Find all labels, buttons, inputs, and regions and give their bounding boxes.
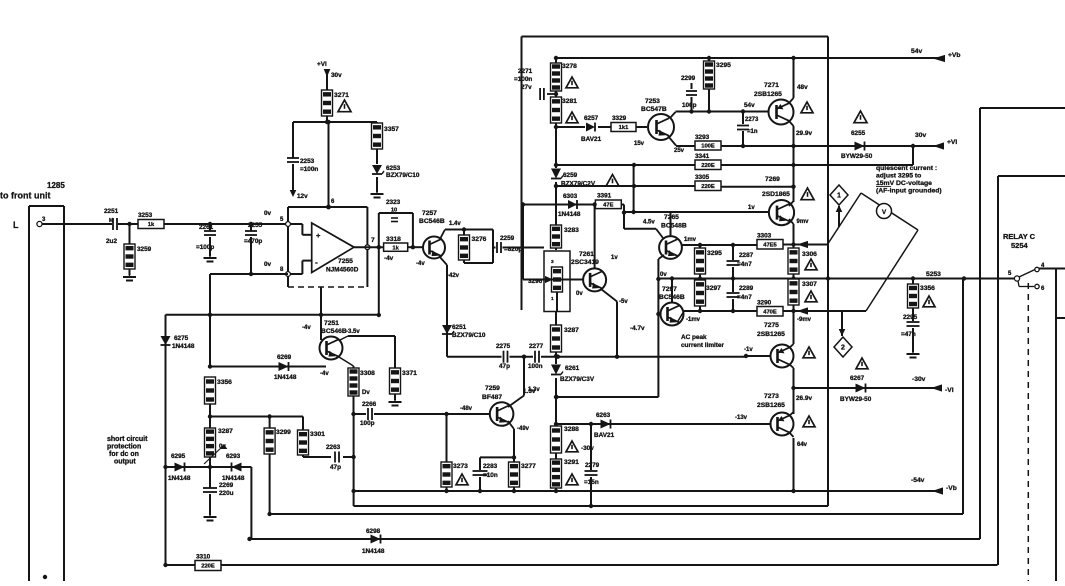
svg-text:3299: 3299 [276, 429, 291, 436]
svg-text:6275: 6275 [174, 335, 189, 342]
svg-text:2261: 2261 [199, 224, 214, 231]
svg-text:2255: 2255 [248, 222, 263, 229]
svg-text:1N4148: 1N4148 [222, 475, 245, 482]
svg-text:3293: 3293 [695, 134, 710, 141]
svg-text:7257: 7257 [422, 210, 437, 217]
svg-text:220u: 220u [219, 490, 234, 497]
svg-text:short circuit: short circuit [107, 436, 148, 443]
svg-text:-9mv: -9mv [797, 317, 812, 323]
svg-text:1mv: 1mv [684, 237, 697, 243]
svg-text:7273: 7273 [764, 393, 779, 400]
svg-text:1.3v: 1.3v [523, 388, 536, 395]
svg-text:=470p: =470p [244, 238, 262, 245]
svg-text:-4v: -4v [384, 255, 394, 262]
svg-text:3356: 3356 [920, 285, 935, 292]
svg-text:=820p: =820p [504, 246, 522, 253]
svg-text:0v: 0v [660, 272, 667, 278]
svg-text:6263: 6263 [596, 412, 611, 419]
svg-text:3287: 3287 [564, 327, 579, 334]
svg-text:7265: 7265 [664, 214, 679, 221]
svg-text:V: V [882, 209, 887, 216]
svg-text:3278: 3278 [562, 63, 577, 70]
svg-text:-49v: -49v [517, 426, 530, 432]
svg-text:2SB1265: 2SB1265 [754, 91, 782, 98]
svg-text:2: 2 [841, 345, 845, 352]
svg-text:BAV21: BAV21 [594, 432, 615, 439]
svg-text:=100n: =100n [300, 166, 318, 173]
svg-text:3356: 3356 [217, 379, 232, 386]
svg-text:-30v: -30v [581, 445, 594, 452]
svg-text:3: 3 [551, 259, 554, 265]
svg-text:3341: 3341 [695, 153, 710, 160]
svg-text:3307: 3307 [802, 281, 817, 288]
svg-text:54v: 54v [911, 48, 922, 55]
svg-text:2279: 2279 [585, 462, 600, 469]
svg-text:7261: 7261 [579, 251, 594, 258]
svg-text:2289: 2289 [739, 285, 754, 292]
svg-text:100p: 100p [682, 102, 697, 109]
svg-text:7251: 7251 [324, 320, 339, 327]
svg-text:6255: 6255 [851, 130, 866, 137]
svg-text:3287: 3287 [218, 428, 233, 435]
svg-text:-4.7v: -4.7v [630, 325, 645, 332]
svg-text:2266: 2266 [362, 401, 377, 408]
svg-text:BC546B: BC546B [419, 218, 445, 225]
svg-text:-4v: -4v [302, 325, 311, 331]
svg-text:7269: 7269 [765, 176, 780, 183]
svg-text:3253: 3253 [138, 212, 153, 219]
svg-text:NJM4560D: NJM4560D [326, 267, 359, 274]
svg-text:6295: 6295 [171, 453, 186, 460]
svg-text:3295: 3295 [707, 250, 722, 257]
svg-text:6259: 6259 [563, 172, 578, 179]
svg-text:BZX79/C3V: BZX79/C3V [560, 376, 595, 383]
svg-text:15v: 15v [634, 141, 645, 147]
svg-text:2295: 2295 [903, 314, 918, 321]
svg-text:4.5v: 4.5v [643, 220, 655, 226]
svg-text:-Vb: -Vb [946, 485, 957, 492]
svg-text:6269: 6269 [277, 354, 292, 361]
svg-text:Dv: Dv [362, 390, 370, 396]
svg-text:64v: 64v [797, 442, 808, 448]
svg-text:BC548B: BC548B [661, 223, 687, 230]
svg-text:(AF-input grounded): (AF-input grounded) [876, 188, 942, 195]
svg-text:+Vl: +Vl [317, 61, 327, 68]
svg-text:3391: 3391 [597, 193, 612, 200]
svg-text:7275: 7275 [764, 322, 779, 329]
svg-text:protection: protection [107, 444, 141, 451]
svg-text:3277: 3277 [521, 463, 536, 470]
svg-text:2SB1265: 2SB1265 [757, 331, 785, 338]
svg-text:=1n: =1n [747, 129, 758, 135]
svg-text:3271: 3271 [334, 92, 349, 99]
svg-text:3318: 3318 [386, 236, 401, 243]
svg-text:9mv: 9mv [797, 219, 810, 225]
svg-text:+Vl: +Vl [947, 139, 957, 146]
svg-text:470E: 470E [763, 309, 777, 315]
svg-text:1N4148: 1N4148 [558, 211, 581, 218]
svg-text:3276: 3276 [472, 236, 487, 243]
svg-text:3290: 3290 [757, 300, 772, 307]
svg-text:0v: 0v [264, 210, 272, 217]
svg-text:30v: 30v [915, 132, 926, 139]
svg-text:0v: 0v [576, 291, 583, 297]
svg-text:output: output [114, 459, 136, 466]
svg-text:M: M [109, 218, 113, 224]
svg-text:2323: 2323 [386, 199, 401, 206]
svg-text:3310: 3310 [196, 554, 211, 561]
svg-text:7253: 7253 [645, 98, 660, 105]
svg-text:3308: 3308 [360, 370, 375, 377]
svg-text:6267: 6267 [850, 375, 865, 382]
svg-text:7271: 7271 [764, 82, 779, 89]
svg-text:quiescent current :: quiescent current : [876, 165, 937, 172]
svg-text:3303: 3303 [757, 233, 772, 240]
svg-text:2271: 2271 [518, 68, 533, 75]
svg-text:7297: 7297 [662, 286, 677, 293]
svg-text:-4v: -4v [416, 261, 425, 267]
svg-text:3283: 3283 [564, 227, 579, 234]
svg-text:25v: 25v [674, 148, 685, 154]
svg-text:=4n7: =4n7 [737, 294, 752, 301]
svg-text:6298: 6298 [366, 528, 381, 535]
svg-text:for dc on: for dc on [109, 451, 139, 458]
svg-text:2SD1865: 2SD1865 [762, 191, 790, 198]
svg-text:220E: 220E [701, 163, 715, 169]
svg-text:BAV21: BAV21 [581, 136, 602, 143]
svg-text:2SB1265: 2SB1265 [757, 402, 785, 409]
svg-text:3291: 3291 [564, 459, 579, 466]
svg-text:=100p: =100p [196, 244, 214, 251]
svg-text:220E: 220E [701, 184, 715, 190]
svg-text:3281: 3281 [562, 98, 577, 105]
svg-text:-4v: -4v [320, 371, 329, 377]
svg-text:6303: 6303 [563, 193, 578, 200]
svg-text:3329: 3329 [612, 115, 627, 122]
svg-text:BZX79/C10: BZX79/C10 [452, 332, 486, 339]
svg-text:0v: 0v [264, 261, 272, 268]
svg-text:1285: 1285 [47, 181, 65, 190]
svg-text:-13v: -13v [735, 415, 748, 421]
svg-text:BYW29-50: BYW29-50 [840, 396, 872, 403]
svg-text:1N4148: 1N4148 [362, 548, 385, 555]
svg-text:2269: 2269 [219, 482, 234, 489]
svg-text:to front unit: to front unit [0, 191, 50, 201]
svg-text:100E: 100E [701, 144, 715, 150]
svg-text:2u2: 2u2 [106, 238, 117, 245]
svg-text:1: 1 [551, 296, 554, 302]
svg-text:1k: 1k [148, 222, 155, 228]
svg-text:100n: 100n [528, 363, 543, 370]
svg-text:6253: 6253 [386, 165, 401, 172]
svg-text:3305: 3305 [695, 174, 710, 181]
svg-text:3357: 3357 [384, 126, 399, 133]
svg-text:6257: 6257 [584, 115, 599, 122]
svg-text:1: 1 [837, 193, 841, 200]
svg-text:BZX79/C10: BZX79/C10 [386, 172, 420, 179]
svg-text:=100n: =100n [514, 76, 532, 83]
svg-text:1.4v: 1.4v [449, 221, 461, 227]
svg-text:47p: 47p [330, 464, 341, 471]
svg-text:adjust 3295 to: adjust 3295 to [876, 173, 921, 180]
svg-text:2259: 2259 [500, 235, 515, 242]
svg-text:2283: 2283 [483, 463, 498, 470]
svg-text:6261: 6261 [565, 365, 580, 372]
svg-text:2299: 2299 [681, 75, 696, 82]
svg-text:3295: 3295 [716, 62, 731, 69]
svg-text:3371: 3371 [402, 370, 417, 377]
svg-text:3301: 3301 [310, 431, 325, 438]
svg-text:+: + [316, 231, 321, 240]
svg-text:2263: 2263 [326, 444, 341, 451]
svg-text:2253: 2253 [300, 158, 315, 165]
svg-text:12v: 12v [297, 193, 308, 200]
svg-text:220E: 220E [201, 564, 215, 570]
svg-text:3288: 3288 [564, 426, 579, 433]
svg-text:100p: 100p [360, 420, 375, 427]
svg-text:2251: 2251 [104, 208, 119, 215]
svg-text:1v: 1v [611, 255, 618, 261]
svg-text:5253: 5253 [926, 271, 941, 278]
svg-text:-48v: -48v [460, 406, 473, 412]
svg-text:RELAY C: RELAY C [1003, 232, 1036, 241]
svg-text:7: 7 [371, 237, 375, 244]
svg-text:2277: 2277 [529, 343, 544, 350]
svg-text:=4n7: =4n7 [737, 261, 752, 268]
svg-text:-30v: -30v [912, 376, 926, 383]
svg-text:27v: 27v [521, 84, 532, 91]
svg-text:BYW29-50: BYW29-50 [841, 153, 873, 160]
svg-text:10: 10 [391, 208, 397, 214]
svg-text:L: L [13, 220, 19, 230]
svg-text:6293: 6293 [226, 453, 241, 460]
svg-text:current limiter: current limiter [681, 342, 724, 349]
svg-text:-1mv: -1mv [686, 317, 701, 323]
svg-text:+Vb: +Vb [948, 52, 960, 59]
svg-text:48v: 48v [797, 84, 808, 91]
svg-text:3297: 3297 [706, 285, 721, 292]
svg-text:-1v: -1v [744, 347, 753, 353]
svg-text:2287: 2287 [739, 252, 754, 259]
svg-text:=10n: =10n [483, 472, 498, 479]
svg-text:7259: 7259 [485, 385, 500, 392]
svg-text:3259: 3259 [137, 246, 152, 253]
svg-text:-Vl: -Vl [945, 387, 954, 394]
svg-text:5254: 5254 [1011, 241, 1029, 250]
svg-text:AC peak: AC peak [681, 334, 707, 341]
svg-text:2275: 2275 [496, 343, 511, 350]
svg-text:3306: 3306 [802, 251, 817, 258]
svg-text:BC546B: BC546B [321, 328, 347, 335]
svg-text:1N4148: 1N4148 [172, 343, 195, 350]
svg-text:1v: 1v [748, 205, 755, 211]
svg-text:47E5: 47E5 [763, 242, 777, 248]
svg-text:47E: 47E [603, 203, 613, 209]
svg-text:1N4148: 1N4148 [274, 374, 297, 381]
svg-text:29.9v: 29.9v [796, 130, 812, 137]
svg-text:6251: 6251 [452, 324, 467, 331]
svg-text:47p: 47p [499, 363, 510, 370]
svg-text:30v: 30v [331, 72, 342, 79]
svg-text:7255: 7255 [338, 258, 353, 265]
svg-text:-42v: -42v [447, 273, 460, 279]
svg-text:-3.5v: -3.5v [346, 329, 360, 335]
svg-text:2273: 2273 [745, 117, 759, 123]
svg-text:-: - [315, 257, 318, 267]
svg-text:BF487: BF487 [482, 394, 502, 401]
svg-text:-54v: -54v [911, 477, 925, 484]
svg-text:54v: 54v [744, 102, 755, 109]
svg-text:26.9v: 26.9v [796, 395, 812, 402]
svg-text:3273: 3273 [453, 463, 468, 470]
svg-text:1k: 1k [392, 245, 399, 251]
svg-text:BC547B: BC547B [641, 106, 667, 113]
svg-text:1N4148: 1N4148 [168, 475, 191, 482]
svg-text:1k1: 1k1 [619, 125, 629, 131]
svg-text:-5v: -5v [619, 299, 628, 305]
